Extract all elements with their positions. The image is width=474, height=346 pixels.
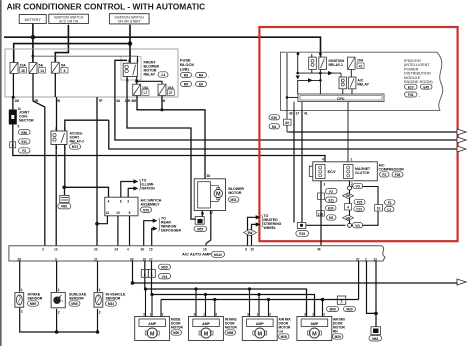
svg-text:RELAY: RELAY	[144, 73, 156, 77]
svg-text:,: ,	[193, 83, 194, 87]
svg-text:M34: M34	[108, 302, 114, 306]
svg-text:AMP: AMP	[256, 322, 264, 326]
svg-text:13R: 13R	[125, 99, 132, 103]
svg-text:A/C AUTO AMP: A/C AUTO AMP	[182, 252, 211, 257]
svg-text:M3: M3	[184, 74, 189, 78]
svg-text:46: 46	[317, 248, 321, 252]
svg-text:NECTOR: NECTOR	[19, 119, 34, 123]
svg-text:E15: E15	[299, 232, 305, 236]
svg-text:23: 23	[94, 248, 98, 252]
svg-text:M50: M50	[173, 331, 179, 335]
svg-text:M: M	[258, 332, 263, 338]
svg-text:F2: F2	[22, 149, 26, 153]
svg-text:M1: M1	[329, 216, 334, 220]
svg-text:M30: M30	[346, 307, 352, 311]
svg-text:14: 14	[40, 69, 44, 73]
svg-text:3: 3	[144, 273, 146, 277]
svg-text:M: M	[312, 332, 317, 338]
svg-text:20A: 20A	[357, 59, 364, 63]
svg-text:M95: M95	[329, 307, 335, 311]
svg-text:41: 41	[304, 112, 308, 116]
svg-text:M57: M57	[197, 227, 203, 231]
svg-text:15A: 15A	[142, 86, 149, 90]
svg-text:3: 3	[247, 313, 249, 317]
svg-text:E56: E56	[21, 131, 27, 135]
svg-text:17: 17	[296, 112, 300, 116]
svg-text:GR: GR	[346, 194, 351, 198]
svg-text:24: 24	[115, 248, 119, 252]
svg-text:41: 41	[359, 64, 363, 68]
svg-text:M5: M5	[184, 83, 189, 87]
svg-text:1: 1	[62, 299, 64, 303]
svg-text:8: 8	[245, 248, 247, 252]
svg-text:13: 13	[54, 248, 58, 252]
svg-text:ASSEMBLY: ASSEMBLY	[141, 203, 161, 207]
svg-text:43: 43	[289, 112, 293, 116]
svg-text:SENSOR: SENSOR	[69, 297, 84, 301]
svg-text:,: ,	[419, 93, 420, 97]
svg-text:27: 27	[94, 257, 98, 261]
svg-text:M4: M4	[199, 74, 204, 78]
svg-text:3: 3	[194, 313, 196, 317]
svg-text:1: 1	[150, 313, 152, 317]
svg-text:BATTERY: BATTERY	[25, 18, 42, 22]
svg-text:WHEEL: WHEEL	[264, 226, 278, 230]
svg-text:2: 2	[323, 313, 325, 317]
svg-text:9: 9	[129, 211, 131, 215]
svg-text:M61: M61	[61, 205, 67, 209]
svg-text:F43: F43	[408, 93, 414, 97]
svg-text:170: 170	[318, 212, 324, 216]
svg-text:10: 10	[116, 211, 120, 215]
svg-text:2: 2	[58, 311, 60, 315]
svg-text:N79: N79	[143, 208, 149, 212]
svg-text:4: 4	[347, 205, 349, 209]
svg-text:3: 3	[55, 127, 57, 131]
svg-text:E6: E6	[199, 83, 203, 87]
svg-text:5W: 5W	[248, 231, 253, 235]
svg-text:M35: M35	[161, 266, 167, 270]
svg-text:8: 8	[12, 143, 14, 147]
svg-text:5A: 5A	[39, 64, 44, 68]
svg-text:M61: M61	[372, 337, 378, 341]
svg-text:1: 1	[58, 288, 60, 292]
svg-text:3: 3	[304, 313, 306, 317]
svg-text:3: 3	[143, 313, 145, 317]
svg-text:F3: F3	[382, 173, 386, 177]
svg-text:12: 12	[106, 211, 110, 215]
svg-text:38: 38	[207, 174, 211, 178]
svg-text:M: M	[216, 192, 221, 198]
svg-text:RH: RH	[333, 330, 338, 334]
svg-text:AIR CONDITIONER CONTROL - WITH: AIR CONDITIONER CONTROL - WITH AUTOMATIC	[7, 1, 206, 11]
svg-text:M: M	[204, 332, 209, 338]
svg-text:(J/B): (J/B)	[180, 67, 190, 72]
svg-text:SENSOR: SENSOR	[106, 297, 121, 301]
svg-text:MOTOR: MOTOR	[225, 326, 238, 330]
svg-text:F1: F1	[388, 201, 392, 205]
svg-text:AMP: AMP	[311, 322, 319, 326]
svg-text:E11: E11	[21, 140, 27, 144]
svg-text:15A: 15A	[167, 86, 174, 90]
svg-text:M: M	[150, 332, 155, 338]
svg-text:NATION: NATION	[142, 187, 156, 191]
svg-text:2: 2	[162, 313, 164, 317]
svg-text:ON OR START: ON OR START	[118, 19, 141, 23]
svg-text:F25: F25	[357, 201, 363, 205]
svg-text:LH: LH	[279, 330, 284, 334]
svg-text:1: 1	[99, 288, 101, 292]
svg-text:4: 4	[108, 199, 110, 203]
svg-text:2: 2	[99, 311, 101, 315]
svg-text:E30: E30	[271, 116, 277, 120]
svg-text:L7: L7	[144, 91, 148, 95]
svg-text:DEFOGGER: DEFOGGER	[161, 229, 182, 233]
svg-text:1: 1	[312, 313, 314, 317]
svg-text:16: 16	[143, 257, 147, 261]
svg-text:RELAY-2: RELAY-2	[70, 140, 85, 144]
svg-text:28: 28	[18, 257, 22, 261]
svg-text:M29: M29	[335, 335, 341, 339]
svg-text:E45: E45	[423, 85, 429, 89]
svg-text:ECV: ECV	[328, 169, 337, 174]
svg-text:2: 2	[215, 313, 217, 317]
svg-text:AMP: AMP	[202, 322, 210, 326]
svg-text:COMPRESSOR: COMPRESSOR	[379, 168, 405, 172]
svg-text:5A: 5A	[61, 64, 66, 68]
svg-text:GR: GR	[346, 216, 351, 220]
svg-text:6: 6	[64, 69, 66, 73]
svg-text:,: ,	[390, 173, 391, 177]
svg-text:8M: 8M	[132, 99, 137, 103]
svg-text:7P: 7P	[99, 99, 104, 103]
svg-text:M142: M142	[214, 253, 222, 257]
svg-text:2: 2	[21, 310, 23, 314]
svg-text:M58: M58	[227, 331, 233, 335]
svg-text:4: 4	[322, 157, 324, 161]
svg-text:1M: 1M	[15, 99, 20, 103]
svg-text:10: 10	[377, 206, 381, 210]
svg-text:17: 17	[149, 257, 153, 261]
svg-text:27: 27	[169, 91, 173, 95]
svg-text:1: 1	[151, 273, 153, 277]
svg-text:6: 6	[120, 199, 122, 203]
svg-text:4U: 4U	[116, 99, 121, 103]
svg-text:1: 1	[203, 313, 205, 317]
svg-text:E11: E11	[328, 198, 334, 202]
svg-text:C2: C2	[387, 208, 391, 212]
svg-text:36: 36	[21, 69, 25, 73]
svg-text:18: 18	[203, 248, 207, 252]
svg-text:60: 60	[285, 121, 289, 125]
svg-text:J-4: J-4	[161, 73, 166, 77]
svg-text:20: 20	[251, 248, 255, 252]
svg-text:V15: V15	[162, 275, 168, 279]
svg-text:5: 5	[18, 125, 20, 129]
svg-text:CPU: CPU	[337, 97, 345, 101]
svg-text:37: 37	[356, 257, 360, 261]
svg-text:MOTOR: MOTOR	[171, 326, 184, 330]
svg-text:F2: F2	[329, 190, 333, 194]
svg-text:36: 36	[141, 248, 145, 252]
svg-text:M28: M28	[281, 335, 287, 339]
svg-text:E30: E30	[328, 207, 334, 211]
svg-text:RELAY: RELAY	[357, 83, 369, 87]
svg-text:E10: E10	[408, 85, 414, 89]
svg-text:36: 36	[130, 257, 134, 261]
svg-text:10A: 10A	[20, 64, 27, 68]
svg-text:M56: M56	[71, 302, 77, 306]
svg-text:3: 3	[42, 248, 44, 252]
svg-text:1: 1	[64, 127, 66, 131]
svg-text:F98: F98	[395, 173, 401, 177]
svg-text:7: 7	[320, 195, 322, 199]
svg-text:MOTOR: MOTOR	[228, 191, 241, 195]
svg-text:3: 3	[324, 183, 326, 187]
svg-text:M99: M99	[30, 302, 36, 306]
svg-text:22: 22	[374, 257, 378, 261]
svg-text:9: 9	[55, 257, 57, 261]
svg-text:AMP: AMP	[148, 322, 156, 326]
svg-text:1: 1	[21, 288, 23, 292]
svg-text:4: 4	[127, 248, 129, 252]
svg-text:VO: VO	[355, 224, 360, 228]
svg-text:CLUTCH: CLUTCH	[355, 171, 370, 175]
svg-text:2: 2	[269, 313, 271, 317]
svg-text:VO: VO	[355, 185, 360, 189]
svg-text:15: 15	[149, 248, 153, 252]
svg-text:,: ,	[208, 74, 209, 78]
svg-text:1: 1	[351, 157, 353, 161]
svg-text:,: ,	[193, 74, 194, 78]
svg-text:SENSOR: SENSOR	[28, 297, 43, 301]
svg-text:M31: M31	[230, 198, 236, 202]
svg-text:RELAY-1: RELAY-1	[329, 63, 344, 67]
svg-text:ACC OR ON: ACC OR ON	[59, 19, 79, 23]
svg-text:1: 1	[257, 313, 259, 317]
svg-text:2: 2	[341, 300, 343, 304]
svg-text:M1: M1	[272, 125, 277, 129]
svg-text:2: 2	[365, 257, 367, 261]
svg-text:M73: M73	[72, 145, 78, 149]
svg-text:3: 3	[127, 199, 129, 203]
svg-text:C23: C23	[356, 208, 362, 212]
svg-text:ENGINE ROOM): ENGINE ROOM)	[404, 80, 433, 84]
